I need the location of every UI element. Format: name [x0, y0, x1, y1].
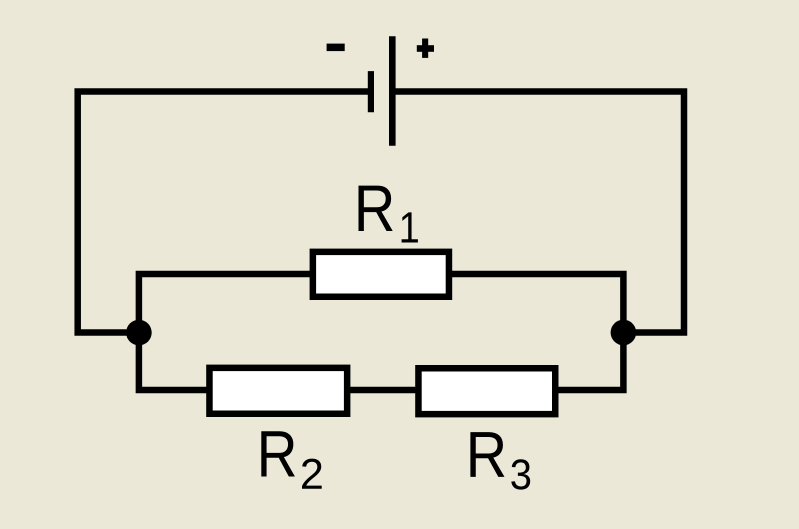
wire: R1 left lead, left inner vertical and R2 left lead	[139, 274, 313, 390]
label: plus sign at battery positive terminal	[417, 39, 434, 58]
label: minus sign at battery negative terminal	[327, 44, 345, 52]
battery BT1 positive plate (long)	[389, 36, 396, 146]
resistor R1 body	[313, 252, 449, 297]
battery BT1 negative plate (short)	[368, 71, 374, 112]
wire: between R2 and R3	[348, 387, 419, 394]
label R3	[470, 432, 530, 490]
label R2	[261, 431, 321, 488]
node: right junction dot	[611, 320, 637, 346]
node: left junction dot	[126, 320, 152, 346]
resistor R3 body	[418, 368, 555, 414]
wire: top-right segment, right outer side and jog to right node	[392, 92, 684, 333]
wire: R1 right lead, right inner vertical and R3 right lead	[449, 274, 623, 390]
resistor R2 body	[209, 368, 347, 414]
wire: top-left segment, left outer side and jog to left node	[78, 92, 371, 333]
label R1	[359, 186, 418, 243]
